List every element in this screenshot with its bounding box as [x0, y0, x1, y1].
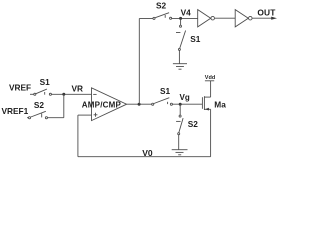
switch S2 vert bottom contact — [178, 133, 180, 135]
svg-text:OUT: OUT — [257, 7, 276, 17]
power Vdd bar — [205, 80, 214, 82]
switch S1 vert blade — [180, 31, 186, 49]
node Vg junction dot — [179, 103, 182, 106]
svg-text:VREF1: VREF1 — [2, 106, 29, 116]
wire feedback vertical — [77, 115, 79, 157]
wire Vdd to source — [210, 81, 212, 97]
svg-text:S2: S2 — [188, 119, 199, 129]
op-amp plus sign — [94, 113, 98, 117]
wire drain vertical — [210, 109, 212, 156]
switch S2 row2 right contact — [45, 117, 47, 119]
inverter U2 — [198, 10, 211, 27]
node V4 junction dot — [179, 17, 182, 20]
inverter U3 — [235, 10, 248, 27]
wire VREF stub — [30, 93, 34, 95]
transistor Ma arrow — [205, 108, 209, 111]
svg-text:AMP/CMP: AMP/CMP — [82, 101, 122, 110]
op-amp U1 AMP/CMP triangle — [92, 88, 127, 121]
ground top branch — [173, 64, 187, 69]
wire Vg down to S2 — [179, 104, 181, 115]
svg-text:V4: V4 — [181, 7, 192, 17]
wire elbow to S2 top — [139, 18, 153, 20]
wire V4 to inverter — [172, 17, 198, 19]
switch S1 row1 tick — [44, 92, 46, 95]
switch S1 mid tick — [167, 102, 169, 104]
wire node VR to amp — [52, 93, 92, 95]
wire amp output — [127, 103, 152, 105]
svg-text:Vdd: Vdd — [205, 75, 215, 81]
switch S2 top blade — [155, 13, 169, 18]
switch S2 vert blade — [179, 118, 183, 133]
wire S1 to ground — [178, 50, 180, 63]
svg-text:S2: S2 — [156, 1, 167, 11]
wire vertical to top branch — [138, 19, 140, 105]
switch S2 top tick — [164, 15, 166, 18]
svg-text:S1: S1 — [40, 77, 51, 87]
switch S2 row2 tick — [41, 114, 43, 118]
svg-text:Vg: Vg — [180, 93, 190, 102]
svg-text:S1: S1 — [190, 34, 201, 44]
svg-text:S2: S2 — [34, 100, 45, 110]
switch S1 row1 blade — [36, 89, 47, 94]
wire V4 down to S1 — [180, 18, 182, 25]
svg-text:VREF: VREF — [9, 82, 31, 92]
switch S2 top right contact — [170, 17, 172, 19]
wire U2 to U3 — [215, 17, 236, 19]
node amp output junction dot — [138, 103, 141, 106]
transistor Ma channel bar — [203, 96, 205, 110]
wire VREF1 stub — [27, 117, 28, 119]
wire S2 to ground — [178, 135, 180, 150]
transistor Ma gate bar — [201, 97, 203, 109]
switch S2 vert top contact — [179, 115, 181, 117]
switch S1 row1 left contact — [34, 93, 36, 95]
switch S2 top left contact — [153, 17, 155, 19]
svg-text:S1: S1 — [160, 86, 171, 96]
wire feedback plus input — [78, 114, 92, 116]
switch S1 mid blade — [154, 98, 169, 104]
switch S2 row2 blade — [31, 111, 46, 117]
wire V0 bottom rail — [78, 156, 211, 158]
switch S1 mid right contact — [170, 103, 172, 105]
inverter U2 bubble — [211, 16, 215, 20]
switch S1 mid left contact — [152, 103, 154, 105]
inverter U3 bubble — [249, 16, 253, 20]
switch S1 vert tick — [176, 32, 180, 34]
node VR junction dot — [62, 93, 65, 96]
switch S2 vert tick — [176, 120, 181, 122]
switch S1 row1 right contact — [49, 93, 51, 95]
switch S1 vert bottom contact — [178, 48, 180, 50]
wire Vg to gate — [173, 103, 203, 105]
ground bottom branch — [172, 150, 188, 155]
transistor Ma drain line — [204, 108, 210, 110]
transistor Ma source line — [204, 96, 210, 98]
wire vertical row2 up to VR node — [63, 94, 65, 117]
switch S1 vert top contact — [180, 25, 182, 27]
switch S2 row2 left contact — [28, 117, 30, 119]
wire OUT with arrow — [252, 17, 272, 19]
wire row2 to junction — [48, 117, 64, 119]
svg-text:V0: V0 — [142, 148, 153, 158]
svg-text:VR: VR — [72, 84, 84, 94]
op-amp minus sign — [93, 93, 96, 95]
svg-text:Ma: Ma — [214, 99, 226, 109]
